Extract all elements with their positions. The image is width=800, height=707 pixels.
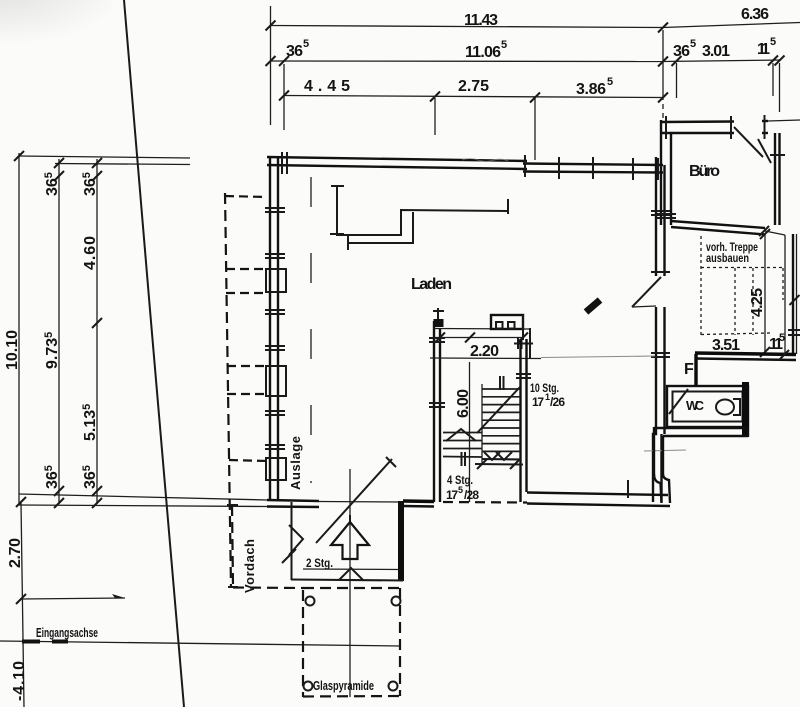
svg-text:3.51: 3.51 (712, 337, 740, 354)
svg-text:5: 5 (607, 76, 613, 88)
svg-text:/26: /26 (550, 395, 565, 409)
svg-text:Büro: Büro (689, 163, 720, 180)
svg-text:WC: WC (686, 398, 705, 413)
svg-text:17: 17 (532, 395, 544, 409)
svg-text:6.36: 6.36 (741, 6, 769, 23)
svg-text:4.25: 4.25 (749, 288, 766, 317)
svg-text:Eingangsachse: Eingangsachse (36, 625, 98, 640)
svg-text:/28: /28 (464, 488, 479, 502)
svg-text:Laden: Laden (411, 276, 452, 293)
svg-text:F: F (684, 361, 694, 378)
svg-text:10.10: 10.10 (4, 330, 21, 370)
svg-text:11.43: 11.43 (464, 12, 498, 29)
svg-text:11: 11 (757, 41, 770, 58)
svg-text:5: 5 (690, 38, 696, 50)
svg-text:36: 36 (673, 43, 690, 60)
svg-text:3.01: 3.01 (702, 43, 730, 60)
svg-text:11.06: 11.06 (465, 44, 501, 61)
svg-text:2.70: 2.70 (7, 538, 24, 568)
svg-text:2.75: 2.75 (458, 78, 489, 95)
svg-text:5: 5 (779, 332, 785, 344)
svg-text:2.20: 2.20 (470, 343, 499, 360)
svg-text:17: 17 (446, 488, 458, 502)
svg-text:5: 5 (770, 36, 776, 48)
svg-text:3.86: 3.86 (576, 81, 606, 98)
svg-text:Auslage: Auslage (288, 436, 303, 490)
svg-text:-4.10: -4.10 (11, 661, 28, 701)
svg-text:4.60: 4.60 (82, 236, 99, 270)
svg-text:5: 5 (303, 38, 309, 50)
svg-text:36: 36 (286, 43, 303, 60)
svg-text:Vordach: Vordach (242, 539, 257, 593)
svg-text:5: 5 (458, 485, 463, 495)
svg-text:2 Stg.: 2 Stg. (306, 556, 333, 570)
svg-text:5: 5 (501, 39, 507, 51)
svg-text:ausbauen: ausbauen (706, 251, 749, 265)
svg-text:Glaspyramide: Glaspyramide (313, 678, 374, 693)
svg-text:4.45: 4.45 (304, 78, 350, 95)
svg-text:6.00: 6.00 (455, 389, 472, 418)
